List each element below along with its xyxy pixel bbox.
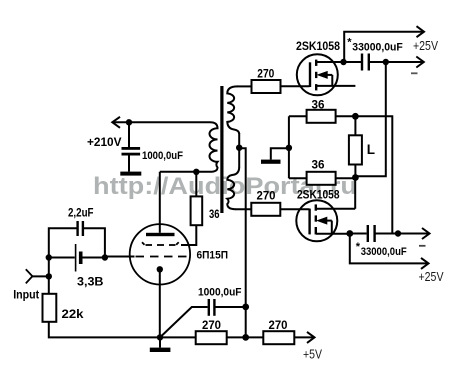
minus sign top: [411, 72, 418, 74]
resistor R2 36 (top): [307, 110, 336, 123]
svg-text:36: 36: [312, 159, 325, 171]
node Q2 source: [346, 230, 353, 237]
transistor Q1 2SK1058: [297, 54, 338, 95]
svg-text:L: L: [367, 142, 375, 157]
wire C3 left: [350, 233, 367, 235]
node grid junction: [102, 254, 108, 260]
wire grid lead (battery to tube): [105, 256, 135, 258]
capacitor C2 33000,0uF plates: [362, 54, 369, 71]
wire +210V top horizontal: [113, 121, 211, 123]
resistor R8 270 (bottom right): [263, 331, 294, 344]
svg-text:1000,0uF: 1000,0uF: [142, 150, 183, 162]
arrow +210V (left pointing): [112, 117, 120, 128]
wire line B (N1 right and down to C3 rail): [355, 116, 392, 233]
tube V1 6П15П envelope: [130, 224, 190, 284]
transformer T1 secondary bottom winding: [227, 167, 239, 209]
wire cathode lead down: [159, 269, 161, 337]
wire secondary centre rail: [238, 133, 240, 168]
node rail/bottom wire: [242, 334, 249, 341]
ground (cathode): [150, 348, 171, 352]
node C3 right: [395, 230, 401, 236]
svg-text:36: 36: [312, 99, 325, 111]
wire C2 right to arrow: [369, 61, 424, 63]
wire Q2 drain riser to N2: [354, 178, 356, 209]
svg-text:2,2uF: 2,2uF: [68, 207, 94, 219]
wire anode to primary: [160, 171, 210, 173]
wire C1 top lead: [128, 122, 130, 147]
inductor L: [349, 135, 362, 164]
svg-text:270: 270: [269, 320, 288, 332]
arrow +5V: [307, 332, 315, 343]
wire input rail: [48, 258, 50, 294]
arrow minus top: [416, 57, 424, 68]
node anode/R5 tap: [193, 169, 199, 175]
ground (mid): [261, 160, 281, 164]
wire L rail bottom: [354, 165, 356, 179]
wire node to R8: [246, 336, 264, 338]
arrow +25V top: [417, 26, 425, 37]
wire C4 right lead: [214, 306, 245, 308]
node cathode/bottom: [157, 334, 163, 340]
capacitor C5 2,2uF plates: [78, 221, 83, 236]
svg-text:6П15П: 6П15П: [197, 250, 229, 262]
wire L rail top: [354, 116, 356, 135]
node input junction upper: [46, 254, 52, 260]
svg-text:+25V: +25V: [413, 39, 439, 53]
wire anode lead up: [159, 172, 161, 233]
svg-text:33000,0uF: 33000,0uF: [361, 246, 407, 258]
wire R5 bottom lead to g2: [181, 225, 196, 245]
wire ground stub bottom: [159, 337, 161, 347]
arrow +25V bottom: [421, 258, 429, 269]
arrow minus bottom: [422, 228, 430, 239]
wire R8 to arrow: [294, 336, 314, 338]
svg-text:2SK1058: 2SK1058: [296, 41, 341, 53]
wire R1 left lead: [237, 85, 252, 87]
transformer T1 core: [220, 86, 223, 213]
wire top rail to C2: [344, 61, 362, 63]
wire R2 leads: [289, 115, 307, 117]
svg-text:22k: 22k: [62, 309, 85, 321]
node C2 right: [383, 59, 389, 65]
node secondary centre tap: [236, 145, 242, 151]
resistor R7 270 (bottom left): [196, 331, 227, 344]
wire ground stub: [271, 148, 289, 159]
resistor R6 22k: [43, 294, 57, 322]
svg-text:2SK1058: 2SK1058: [297, 189, 340, 201]
wire R4 left lead: [235, 208, 251, 210]
tube grid g1 (dashed): [136, 256, 187, 258]
wire centre tap stub to down rail: [239, 148, 246, 209]
wire left rail of R2/R3: [288, 116, 290, 178]
svg-text:270: 270: [257, 68, 274, 80]
wire R6 bottom lead: [49, 322, 196, 338]
battery BT1 3,3B plates: [75, 244, 77, 272]
capacitor C1 1000,0uF plates: [122, 147, 141, 156]
svg-text:+210V: +210V: [87, 137, 122, 149]
transistor Q2 2SK1058: [296, 200, 337, 241]
wire between R7 and node: [227, 336, 246, 338]
wire battery right lead: [83, 257, 105, 259]
svg-text:Input: Input: [13, 290, 39, 302]
svg-text:270: 270: [257, 190, 276, 202]
wire R4 right lead to Q2 gate: [280, 208, 309, 210]
capacitor C3 33000,0uF plates: [368, 225, 375, 242]
wire C5 right lead: [83, 228, 105, 257]
wire +25V bottom: [350, 234, 429, 264]
transformer T1 primary winding: [210, 122, 218, 172]
wire C5 left lead: [49, 228, 78, 257]
tube anode plate: [146, 233, 175, 236]
resistor R3 36 (bottom): [307, 172, 336, 185]
tube cathode: [157, 266, 163, 272]
svg-text:+5V: +5V: [303, 348, 323, 362]
node left rail centre: [286, 145, 292, 151]
wire rail down to bottom wire: [245, 209, 247, 337]
svg-text:1000,0uF: 1000,0uF: [198, 286, 242, 298]
wire line A (C2 right node down to N2): [355, 62, 385, 176]
capacitor C4 1000,0uF plates: [209, 299, 215, 316]
node top-left (1000uF tap): [126, 119, 132, 125]
wire C3 right to arrow: [375, 233, 429, 235]
svg-text:3,3B: 3,3B: [77, 276, 104, 288]
input connector: [26, 269, 33, 283]
tube grid g2 (dashed with hooks): [142, 242, 179, 245]
wire C1 bottom lead: [128, 156, 130, 172]
wire diagonal to C4: [160, 307, 208, 337]
resistor R4 270 (bottom gate): [251, 203, 280, 216]
node Q1 drain: [340, 59, 346, 65]
svg-text:270: 270: [202, 320, 221, 332]
wire R3 leads: [289, 177, 307, 179]
node N1: [352, 113, 359, 120]
node input junction: [46, 273, 52, 279]
ground (below C1): [120, 172, 141, 176]
minus sign bottom: [419, 245, 426, 247]
wire R1 right lead to Q1 gate: [281, 85, 310, 87]
resistor R5 36 (screen): [191, 196, 203, 225]
svg-text:36: 36: [209, 209, 220, 221]
wire input to node: [32, 275, 49, 277]
svg-text:+25V: +25V: [419, 270, 445, 284]
wire riser to +25V top: [344, 32, 424, 62]
node N2: [352, 174, 359, 181]
wire R5 top lead: [195, 172, 197, 197]
svg-text:33000,0uF: 33000,0uF: [352, 41, 403, 53]
resistor R1 270 (top gate): [252, 80, 281, 93]
node C4/rail: [242, 304, 249, 311]
transformer T1 secondary top winding: [227, 86, 239, 134]
wire battery left lead: [49, 257, 75, 259]
